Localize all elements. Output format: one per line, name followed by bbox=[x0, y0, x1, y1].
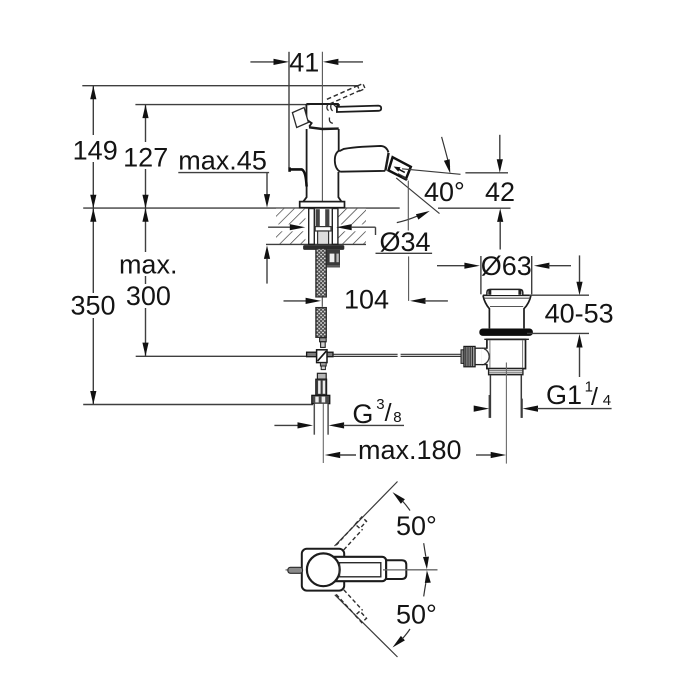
plan faucet body square bbox=[302, 549, 344, 591]
350 bottom ref line bbox=[83, 404, 313, 406]
svg-text:40-53: 40-53 bbox=[545, 299, 614, 329]
supply tube centerline bbox=[322, 404, 324, 463]
handle rotated silhouette (left tilted square) bbox=[292, 108, 308, 128]
washer inside shank bbox=[315, 227, 331, 231]
threaded studs in shank bbox=[316, 209, 320, 226]
plan handle outer bbox=[329, 557, 386, 581]
counter slab left hatched bbox=[276, 209, 305, 245]
faucet head (cartridge housing) bbox=[306, 104, 338, 127]
drain inner dome (semicircle) bbox=[484, 349, 489, 365]
G3/8 threaded section bbox=[316, 379, 327, 395]
counter slab right hatched bbox=[336, 209, 366, 245]
pull rod right piece bbox=[401, 353, 462, 355]
41 left extension line bbox=[288, 52, 290, 168]
svg-text:40°: 40° bbox=[424, 177, 465, 207]
raised handle tip (dashed) bbox=[358, 84, 366, 91]
svg-text:104: 104 bbox=[344, 285, 389, 315]
plan 50deg upper swing line bbox=[335, 482, 398, 547]
drain side neck bbox=[475, 348, 482, 364]
dim 149 vertical bbox=[92, 86, 94, 209]
hose centre tick bbox=[321, 297, 323, 306]
text max. 300 bbox=[117, 252, 180, 276]
svg-text:41: 41 bbox=[289, 48, 319, 78]
dim G 3/8 bbox=[274, 424, 298, 426]
svg-text:max.: max. bbox=[119, 249, 178, 279]
plan handle grip bbox=[386, 560, 406, 579]
spout end face bbox=[385, 153, 388, 171]
plan body circle bbox=[307, 553, 340, 586]
40deg lower arc arrow bbox=[397, 216, 417, 222]
dim dia63 bbox=[437, 265, 466, 267]
text 127 bbox=[123, 142, 169, 169]
dim 40-53 bbox=[529, 294, 589, 296]
dim 41 top bbox=[250, 61, 274, 63]
40deg spray axis line bbox=[402, 169, 461, 175]
vertical ref from aerator bbox=[407, 181, 409, 231]
text 350 bbox=[70, 293, 117, 318]
lever handle (horizontal) bbox=[337, 106, 381, 112]
svg-text:/: / bbox=[591, 383, 598, 411]
plan centerline through grip bbox=[383, 569, 438, 571]
text 149 bbox=[72, 135, 118, 162]
hose inside shank bbox=[318, 231, 329, 244]
svg-text:max.45: max.45 bbox=[178, 146, 267, 176]
washer under counter bbox=[303, 245, 344, 250]
faucet base plate bbox=[300, 202, 345, 208]
max300 bottom ref / pullrod line bbox=[136, 355, 307, 357]
aerator spray lines bbox=[398, 174, 408, 180]
svg-text:3: 3 bbox=[376, 396, 384, 413]
counter slab bottom line bbox=[266, 243, 366, 245]
pull-rod cross fitting bbox=[307, 352, 333, 357]
braided supply hose lower bbox=[316, 308, 326, 338]
plan handle inner lever bbox=[340, 563, 381, 577]
drain knurled knob bbox=[464, 346, 475, 366]
ref line top (149 level) bbox=[82, 85, 357, 87]
G3/8 union nut bbox=[312, 395, 330, 403]
head inner facet marks bbox=[327, 105, 333, 124]
O-ring (black) bbox=[479, 329, 533, 336]
G3/8 connection tube bbox=[314, 404, 328, 435]
plan upper 50deg arc arrows bbox=[393, 492, 405, 504]
svg-text:350: 350 bbox=[70, 291, 115, 321]
drain body bbox=[487, 339, 526, 368]
plan lower 50deg arc arrow bbox=[393, 636, 405, 648]
40deg upper arc arrow bbox=[442, 137, 450, 167]
svg-text:Ø34: Ø34 bbox=[380, 227, 431, 257]
dim dia34 bbox=[268, 226, 291, 228]
shank tube walls bbox=[309, 209, 315, 245]
svg-text:G1: G1 bbox=[546, 380, 582, 410]
svg-text:Ø63: Ø63 bbox=[481, 251, 532, 281]
drain knob end cap bbox=[461, 350, 464, 364]
dim 127 vertical bbox=[145, 105, 147, 209]
dim 42 bbox=[465, 172, 508, 174]
faucet centerline bbox=[321, 52, 323, 207]
svg-text:42: 42 bbox=[485, 177, 515, 207]
faucet body outline bbox=[303, 129, 338, 202]
dim G1 1/4 bbox=[488, 395, 490, 418]
svg-text:4: 4 bbox=[603, 392, 611, 409]
dim max.180 bbox=[325, 452, 341, 458]
svg-text:149: 149 bbox=[73, 136, 118, 166]
drain dome cap bbox=[487, 289, 523, 295]
dim 350 vertical bbox=[92, 208, 94, 404]
plan 50deg lower swing line bbox=[335, 595, 398, 657]
svg-text:50°: 50° bbox=[396, 511, 437, 541]
fitting lower stub bbox=[320, 363, 326, 366]
svg-text:G: G bbox=[352, 399, 373, 429]
drain flange neck bbox=[483, 295, 531, 328]
pull rod left piece bbox=[333, 353, 397, 355]
svg-text:300: 300 bbox=[126, 281, 171, 311]
spout root collar bbox=[335, 150, 341, 171]
svg-text:8: 8 bbox=[393, 409, 401, 426]
svg-text:max.180: max.180 bbox=[358, 435, 462, 465]
aerator (tilted) bbox=[389, 157, 411, 179]
pop-up rod knob (hook at left of body) bbox=[289, 169, 306, 186]
svg-text:50°: 50° bbox=[396, 600, 437, 630]
dim max300 vertical bbox=[145, 208, 147, 356]
plan spout stub bbox=[288, 567, 303, 573]
counter top line bbox=[83, 207, 400, 209]
drain body inner wall lines bbox=[489, 340, 491, 368]
braided supply hose upper bbox=[316, 248, 326, 297]
tailpipe slip nut bbox=[489, 369, 523, 375]
drain side port cut bbox=[482, 349, 489, 365]
40deg angled line bbox=[396, 178, 439, 214]
hose end connector bbox=[320, 338, 327, 342]
tailpipe bbox=[489, 375, 491, 418]
plan dashed handle lower position bbox=[336, 590, 362, 615]
ref line handle-top (127 level) bbox=[135, 104, 309, 106]
svg-text:127: 127 bbox=[123, 142, 168, 172]
drain centerline bbox=[505, 363, 507, 464]
plan centerline bbox=[286, 569, 289, 571]
G3/8 hose ferrule bbox=[317, 373, 326, 379]
svg-text:/: / bbox=[385, 399, 392, 427]
mounting nut bbox=[324, 250, 341, 266]
white corridor for dia34 dim bbox=[266, 224, 370, 231]
head / body junction bbox=[309, 127, 339, 129]
raised handle (dashed) bbox=[327, 86, 360, 104]
seat band below O-ring bbox=[484, 338, 529, 340]
plan dashed handle upper position bbox=[336, 525, 362, 550]
spout bbox=[339, 146, 388, 152]
dim 104 bbox=[284, 300, 307, 302]
flange top plate bbox=[483, 294, 531, 296]
aerator flow arrow bbox=[394, 167, 401, 172]
